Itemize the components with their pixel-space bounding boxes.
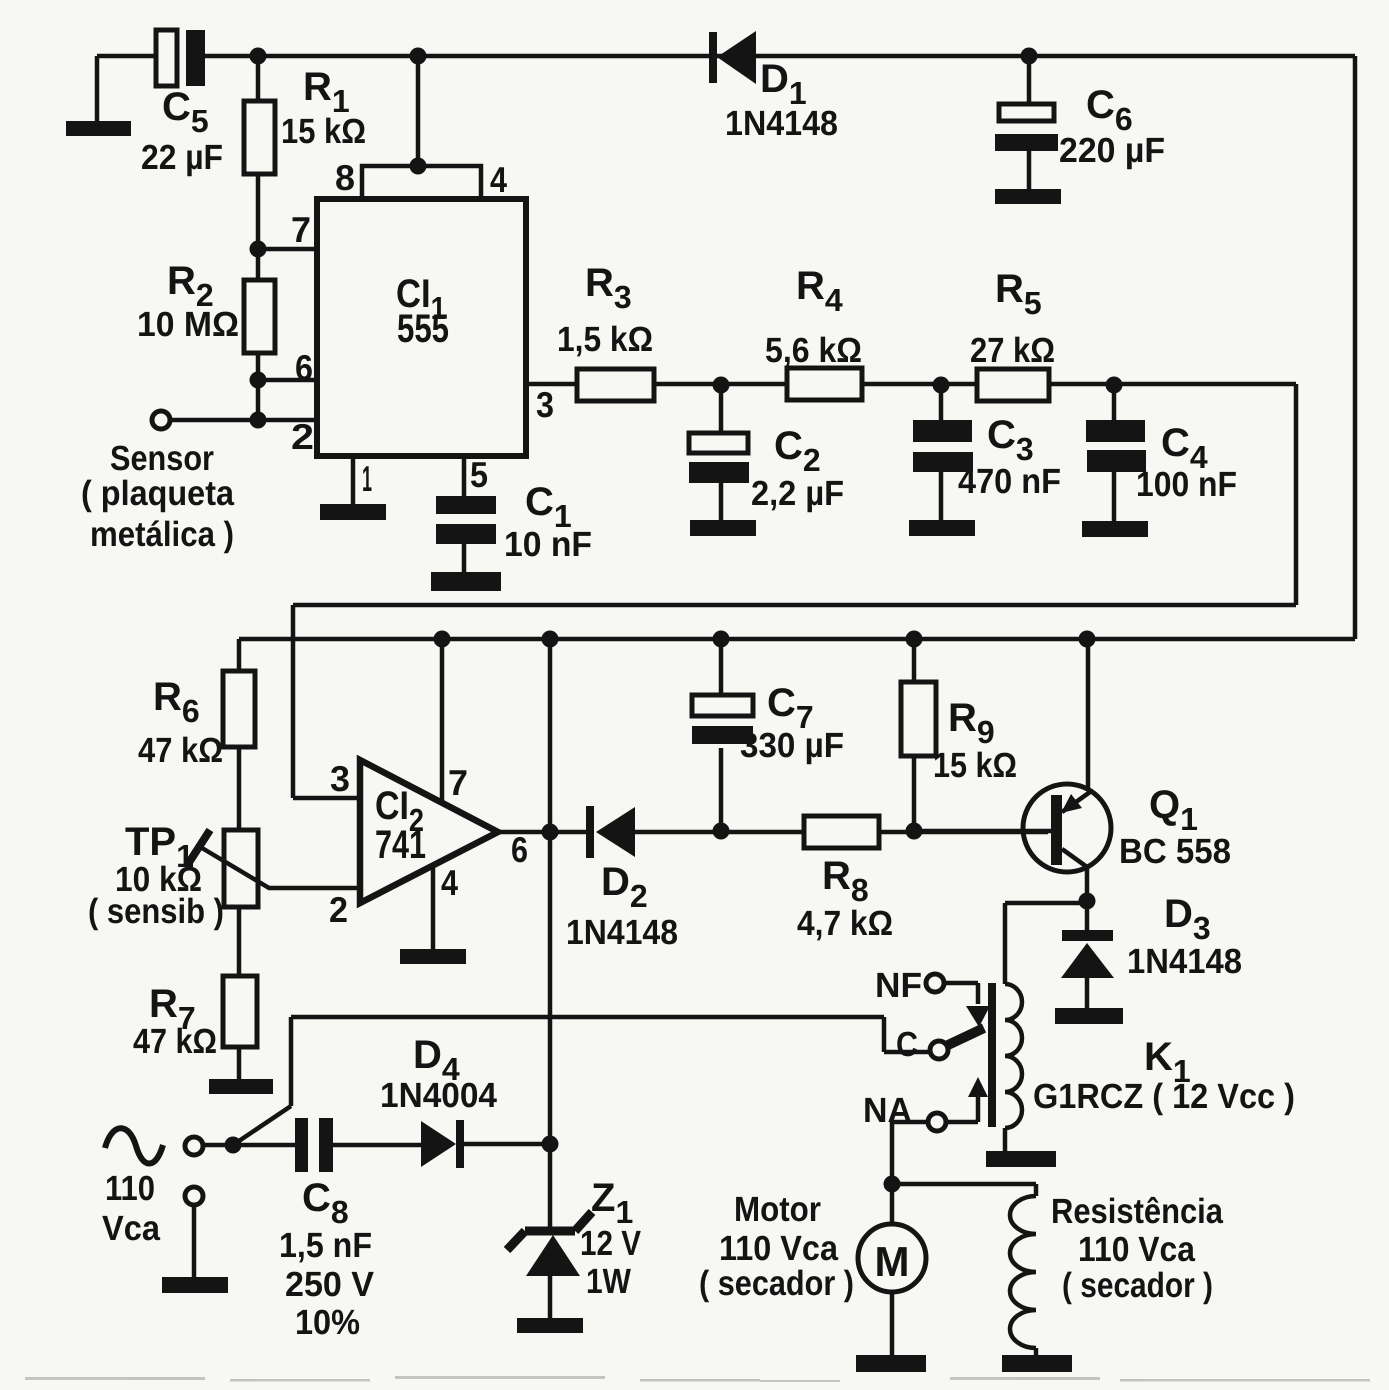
svg-text:( secador ): ( secador ) [1062,1266,1213,1305]
svg-text:12 V: 12 V [580,1224,642,1263]
svg-text:110 Vca: 110 Vca [1078,1230,1195,1269]
svg-text:1: 1 [362,458,372,499]
svg-text:3: 3 [536,384,554,425]
svg-text:7: 7 [448,762,468,803]
svg-text:741: 741 [375,823,426,867]
svg-text:BC 558: BC 558 [1119,832,1231,871]
svg-text:6: 6 [295,347,313,388]
svg-text:6: 6 [511,829,528,870]
svg-text:4: 4 [490,159,507,200]
svg-text:2,2 µF: 2,2 µF [751,474,844,513]
svg-text:1N4004: 1N4004 [380,1076,498,1115]
svg-text:Vca: Vca [102,1209,160,1248]
svg-text:1N4148: 1N4148 [725,104,838,143]
svg-text:4,7 kΩ: 4,7 kΩ [797,904,893,943]
svg-text:22 µF: 22 µF [141,138,223,177]
svg-text:( plaqueta: ( plaqueta [81,474,234,513]
svg-text:47 kΩ: 47 kΩ [133,1022,217,1061]
svg-text:5,6 kΩ: 5,6 kΩ [765,331,862,370]
svg-text:7: 7 [291,209,311,250]
svg-text:15 kΩ: 15 kΩ [933,746,1017,785]
svg-text:M: M [875,1238,910,1285]
svg-text:3: 3 [330,758,350,799]
svg-text:330 µF: 330 µF [740,726,844,765]
svg-text:NA: NA [863,1091,912,1130]
svg-text:555: 555 [397,307,449,351]
svg-text:100 nF: 100 nF [1136,465,1237,504]
svg-text:1N4148: 1N4148 [1127,942,1242,981]
svg-text:G1RCZ ( 12 Vcc ): G1RCZ ( 12 Vcc ) [1033,1077,1295,1116]
svg-text:220 µF: 220 µF [1059,131,1165,170]
svg-text:metálica ): metálica ) [90,515,234,554]
svg-text:2: 2 [329,889,348,930]
svg-text:110: 110 [105,1169,155,1208]
svg-text:250 V: 250 V [285,1265,375,1304]
svg-text:1W: 1W [586,1262,631,1301]
svg-text:Sensor: Sensor [110,439,214,478]
svg-text:5: 5 [470,454,488,495]
svg-text:C: C [896,1025,918,1064]
svg-text:1,5 nF: 1,5 nF [279,1226,372,1265]
svg-text:2: 2 [291,416,314,457]
svg-text:10%: 10% [295,1303,360,1342]
svg-text:1N4148: 1N4148 [566,913,678,952]
svg-text:Resistência: Resistência [1051,1192,1223,1231]
svg-text:110 Vca: 110 Vca [719,1229,838,1268]
svg-text:470 nF: 470 nF [958,462,1061,501]
svg-text:27 kΩ: 27 kΩ [970,331,1055,370]
svg-text:( secador ): ( secador ) [699,1264,854,1303]
svg-text:8: 8 [335,157,355,198]
svg-text:Motor: Motor [734,1190,821,1229]
svg-text:( sensib ): ( sensib ) [88,892,224,931]
svg-text:1,5 kΩ: 1,5 kΩ [557,320,653,359]
svg-text:NF: NF [875,966,922,1005]
svg-text:47 kΩ: 47 kΩ [138,731,223,770]
svg-text:4: 4 [441,862,458,903]
svg-text:10 MΩ: 10 MΩ [137,305,239,344]
svg-text:15 kΩ: 15 kΩ [281,112,366,151]
svg-text:10 nF: 10 nF [504,525,592,564]
